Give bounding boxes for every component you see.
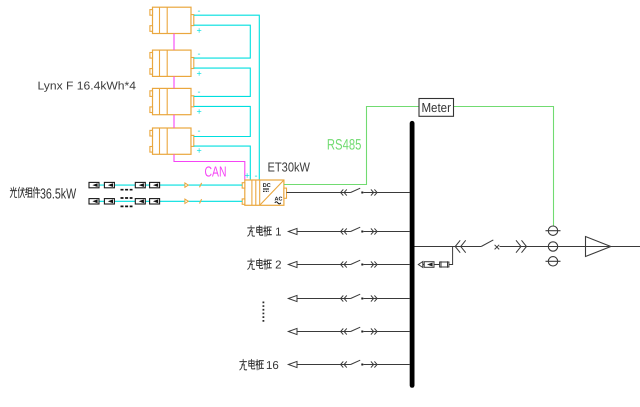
svg-text:+: + <box>245 171 250 181</box>
svg-text:ET30kW: ET30kW <box>268 160 311 175</box>
battery B2 <box>150 50 194 76</box>
PV string wire row 1 <box>89 184 242 186</box>
wire B4 plus to inverter <box>194 146 251 180</box>
ellipsis dashes row 2 lower <box>121 205 133 207</box>
grid arrow triangle <box>586 237 611 257</box>
text charging pile 16 CJK <box>240 359 264 370</box>
text PV array label CJK guangfuzujian <box>10 187 40 198</box>
svg-text:-: - <box>198 126 201 136</box>
svg-text:+: + <box>197 146 202 156</box>
breaker QF0 main AC <box>341 188 378 195</box>
charging pile branch 2 <box>288 261 409 267</box>
wire CAN bus B1-B2 <box>173 34 175 51</box>
PV module 2 row 2 <box>104 199 114 204</box>
PV module 4 row 2 <box>150 199 160 204</box>
charging pile branch 3 <box>288 295 409 301</box>
metering arrow <box>418 262 424 268</box>
svg-text:Lynx F 16.4kWh*4: Lynx F 16.4kWh*4 <box>38 81 137 93</box>
svg-text:36.5kW: 36.5kW <box>40 187 76 203</box>
PV module 3 row 2 <box>135 199 145 204</box>
CT circle bottom <box>546 257 561 266</box>
PV module 2 row 1 <box>104 182 114 187</box>
PV string wire row 2 <box>89 200 242 202</box>
svg-text:+: + <box>197 26 202 36</box>
wire RS485 inverter to meter <box>284 107 419 185</box>
inverter U1 <box>242 180 286 205</box>
charging pile branch 16 <box>288 361 409 367</box>
breaker QF4 <box>341 327 378 334</box>
battery B1 <box>150 7 194 33</box>
PV connector slash row 2 <box>200 199 202 203</box>
breaker QF3 <box>341 294 378 301</box>
svg-text:DC: DC <box>263 183 271 189</box>
PV module 4 row 1 <box>150 182 160 187</box>
breaker QF2 <box>341 260 378 267</box>
grid breaker QF main <box>455 240 526 253</box>
text charging pile 1 CJK <box>248 226 272 237</box>
CT circle top <box>546 226 561 235</box>
CT circle middle <box>548 242 557 251</box>
svg-text:+: + <box>197 69 202 79</box>
metering tap wire <box>449 247 453 265</box>
fuse F1 <box>440 261 449 268</box>
ellipsis between branches <box>262 302 264 323</box>
wire meter to CT <box>454 107 554 227</box>
ellipsis dashes row 1 <box>121 189 133 191</box>
svg-text:RS485: RS485 <box>327 137 362 154</box>
ellipsis dashes row 2 upper <box>121 197 133 199</box>
svg-text:2: 2 <box>275 260 281 272</box>
svg-text:Meter: Meter <box>421 100 451 115</box>
svg-text:1: 1 <box>275 226 281 238</box>
busbar <box>410 123 415 385</box>
wire B1 minus to inverter <box>194 15 259 180</box>
svg-text:-: - <box>198 87 201 97</box>
PV connector arrow row 1 <box>185 183 188 187</box>
metering element wire <box>434 264 439 266</box>
wire B2 plus to B3 minus <box>194 68 251 96</box>
charging pile branch 1 <box>288 228 409 234</box>
breaker QF16 <box>341 360 378 367</box>
svg-text:16: 16 <box>266 360 279 372</box>
text charging pile 2 CJK <box>248 259 272 270</box>
PV connector arrow row 2 <box>185 199 188 203</box>
battery B3 <box>150 88 194 114</box>
wire grid feeder left <box>415 246 482 248</box>
wire CAN bus B4 to inverter <box>174 154 245 180</box>
charging pile branch 4 <box>288 328 409 334</box>
breaker QF1 <box>341 227 378 234</box>
PV module 1 row 1 <box>89 182 99 187</box>
svg-text:-: - <box>198 6 201 16</box>
svg-text:-: - <box>198 49 201 59</box>
wire AC inverter to breaker <box>287 192 351 194</box>
wire B3 plus to B4 minus <box>194 106 251 136</box>
PV connector slash row 1 <box>200 183 202 187</box>
metering element <box>424 262 434 268</box>
svg-text:CAN: CAN <box>205 164 227 180</box>
PV module 1 row 2 <box>89 199 99 204</box>
wire CAN bus B3-B4 <box>173 115 175 128</box>
wire CAN bus B2-B3 <box>173 76 175 88</box>
meter box <box>419 99 454 117</box>
wire breaker to busbar <box>376 192 410 194</box>
wire B1 plus to B2 minus <box>194 25 251 58</box>
PV module 3 row 1 <box>135 182 145 187</box>
svg-text:+: + <box>197 107 202 117</box>
svg-text:-: - <box>255 171 258 181</box>
wire grid feeder right <box>500 246 640 248</box>
battery B4 <box>150 128 194 154</box>
